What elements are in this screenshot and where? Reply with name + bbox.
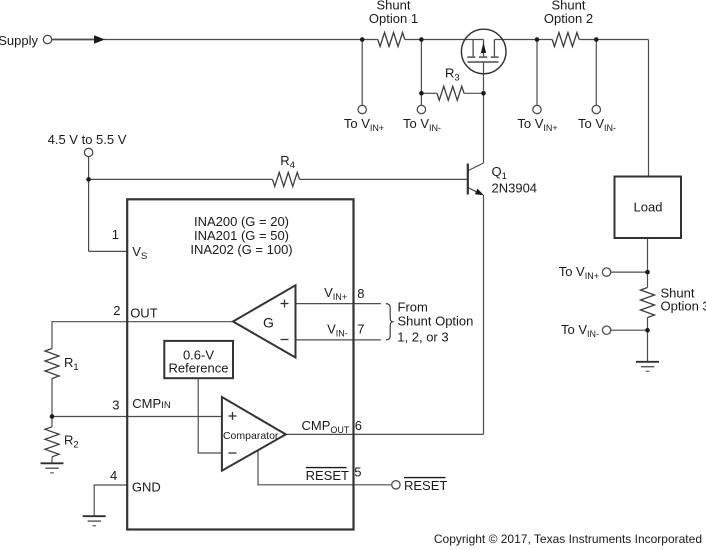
svg-text:Reference: Reference xyxy=(169,361,229,376)
svg-text:5: 5 xyxy=(354,465,361,480)
svg-text:R2: R2 xyxy=(64,433,79,451)
svg-text:2N3904: 2N3904 xyxy=(492,180,538,195)
svg-text:GND: GND xyxy=(132,479,161,494)
svg-text:Option 2: Option 2 xyxy=(544,11,593,26)
svg-text:Comparator: Comparator xyxy=(223,430,279,442)
svg-text:VIN-: VIN- xyxy=(327,322,348,339)
svg-text:RESET: RESET xyxy=(404,478,447,493)
svg-text:Supply: Supply xyxy=(0,33,38,48)
svg-text:4: 4 xyxy=(110,468,117,483)
svg-text:RESET: RESET xyxy=(306,468,349,483)
svg-text:Option 1: Option 1 xyxy=(369,11,418,26)
svg-text:R1: R1 xyxy=(64,355,79,373)
svg-text:1, 2, or 3: 1, 2, or 3 xyxy=(397,330,448,345)
svg-text:6: 6 xyxy=(355,418,362,433)
svg-text:To VIN-: To VIN- xyxy=(403,116,441,133)
svg-text:R3: R3 xyxy=(445,66,460,84)
svg-text:VS: VS xyxy=(132,244,147,262)
svg-text:4.5 V to 5.5 V: 4.5 V to 5.5 V xyxy=(48,132,127,147)
svg-text:OUT: OUT xyxy=(130,306,158,321)
svg-text:To VIN-: To VIN- xyxy=(561,322,599,339)
svg-text:From: From xyxy=(398,299,428,314)
svg-text:INA202 (G = 100): INA202 (G = 100) xyxy=(190,242,292,257)
svg-text:1: 1 xyxy=(112,227,119,242)
svg-text:3: 3 xyxy=(112,397,119,412)
svg-text:CMPOUT: CMPOUT xyxy=(302,418,350,435)
svg-text:To VIN+: To VIN+ xyxy=(517,116,557,133)
svg-text:R4: R4 xyxy=(280,153,295,171)
svg-text:Copyright © 2017, Texas Instru: Copyright © 2017, Texas Instruments Inco… xyxy=(434,532,702,546)
svg-text:INA201 (G = 50): INA201 (G = 50) xyxy=(194,228,289,243)
svg-text:CMPIN: CMPIN xyxy=(132,396,171,411)
svg-text:8: 8 xyxy=(357,286,364,301)
svg-text:To VIN+: To VIN+ xyxy=(559,264,599,281)
svg-text:To VIN-: To VIN- xyxy=(578,116,616,133)
svg-text:Shunt Option: Shunt Option xyxy=(398,314,474,329)
svg-text:Load: Load xyxy=(634,200,663,215)
svg-text:G: G xyxy=(263,315,274,331)
svg-text:2: 2 xyxy=(113,303,120,318)
svg-text:INA200 (G = 20): INA200 (G = 20) xyxy=(194,214,289,229)
svg-text:7: 7 xyxy=(357,322,364,337)
svg-text:Q1: Q1 xyxy=(492,164,507,182)
svg-text:To VIN+: To VIN+ xyxy=(344,116,384,133)
svg-text:Option 3: Option 3 xyxy=(661,299,706,314)
svg-text:VIN+: VIN+ xyxy=(324,285,347,302)
